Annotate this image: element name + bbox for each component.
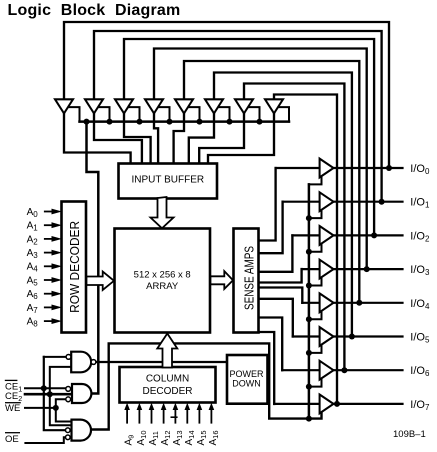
wire T2 output into input buffer — [94, 113, 142, 166]
junction dot at (381.6,201.7) — [379, 199, 385, 205]
arrowhead address input A13 — [173, 403, 179, 410]
wire address input A8 — [45, 320, 54, 322]
wire enable tap to U3 — [309, 274, 322, 285]
wire address input A7 — [45, 306, 54, 308]
arrowhead address input A6 — [52, 291, 63, 297]
wire address input A13 — [174, 409, 176, 423]
arrowhead address input A7 — [52, 305, 63, 311]
input buffer triangle T2 — [85, 99, 103, 113]
wire address input A2 — [45, 238, 54, 240]
wire gate G2 output to write-enable bus — [87, 122, 99, 394]
output buffer U1 (I/O1) — [320, 192, 334, 211]
wire WE input line — [25, 407, 56, 409]
svg-text:WE: WE — [5, 403, 20, 414]
svg-text:512 x 256 x 8: 512 x 256 x 8 — [134, 269, 191, 280]
NAND gate G1 (power down control) — [71, 352, 91, 373]
arrowhead address input A1 — [52, 222, 63, 228]
wire I/O5 line — [293, 335, 403, 337]
junction dot at (359.3,302.8) — [356, 300, 362, 306]
svg-text:COLUMN: COLUMN — [146, 374, 189, 385]
input buffer triangle T6 — [205, 99, 223, 113]
label CE1 (active low) — [5, 379, 18, 381]
wire I/O2 write path to input triangle T3 — [124, 39, 374, 235]
arrowhead address input A16 — [209, 403, 215, 410]
wire enable tap of T6 to write-enable bus — [216, 107, 230, 122]
arrowhead address input A5 — [52, 277, 63, 283]
wire sense amp output 4 to output buffer U4 — [259, 288, 303, 303]
junction dot at (229.5,121.6) — [227, 119, 233, 125]
wire I/O6 write path to input triangle T7 — [244, 84, 344, 371]
svg-text:INPUT BUFFER: INPUT BUFFER — [131, 175, 204, 186]
junction dot at (344.4,370.2) — [341, 367, 347, 373]
label WE (active low) — [5, 402, 21, 404]
wire address input A10 — [138, 409, 140, 423]
wire enable tap of T3 to write-enable bus — [126, 107, 140, 122]
wire address input A4 — [45, 265, 54, 267]
wire enable tap of T2 to write-enable bus — [96, 107, 110, 122]
wire T4 output into input buffer — [154, 113, 158, 166]
svg-text:ROW DECODER: ROW DECODER — [67, 221, 82, 313]
svg-text:POWER: POWER — [229, 369, 264, 379]
hollow arrow array to sense amps — [211, 271, 234, 289]
wire I/O3 line — [302, 268, 403, 270]
svg-text:ARRAY: ARRAY — [146, 281, 179, 292]
arrowhead address input A10 — [137, 403, 143, 410]
wire CE1 branch to gate G1 — [44, 356, 66, 358]
wire address input A6 — [45, 293, 54, 295]
wire I/O7 write path to input triangle T8 — [274, 95, 337, 404]
arrowhead address input A2 — [52, 236, 63, 242]
wire enable tap of T5 to write-enable bus — [186, 107, 200, 122]
wire I/O2 line — [292, 234, 402, 236]
junction dot at (169.5,121.6) — [167, 119, 173, 125]
wire I/O1 write path to input triangle T2 — [94, 31, 382, 202]
wire gate G1 output to power down block — [96, 361, 227, 363]
input buffer triangle T1 — [55, 99, 73, 113]
junction dot at (308.9,352.9) — [306, 350, 312, 356]
wire T8 output into input buffer — [208, 113, 274, 166]
output buffer U5 (I/O5) — [320, 327, 334, 346]
junction dot at (374.1,235.4) — [371, 232, 377, 238]
wire CE2 rail to gates G1 and G3 — [50, 367, 72, 425]
wire sense amp output 3 to output buffer U3 — [259, 269, 302, 282]
junction dot at (308.9,251.8) — [306, 249, 312, 255]
sense amps box — [234, 229, 259, 333]
label OE (active low) — [5, 432, 20, 434]
svg-text:OE: OE — [5, 434, 19, 445]
wire address input A16 — [210, 409, 212, 423]
svg-text:109B–1: 109B–1 — [393, 429, 426, 440]
wire WE branch to gate G3 — [56, 408, 72, 422]
arrowhead address input A8 — [52, 318, 63, 324]
wire I/O6 line — [282, 369, 402, 371]
memory array box — [115, 229, 211, 333]
wire sense amp output 5 to output buffer U5 — [259, 299, 293, 337]
arrowhead address input A9 — [124, 403, 130, 410]
output buffer U4 (I/O4) — [320, 293, 334, 312]
wire address input A3 — [45, 252, 54, 254]
junction dot at (139.5,121.6) — [137, 119, 143, 125]
input buffer triangle T7 — [235, 99, 253, 113]
wire sense amp output 0 to output buffer U0 — [259, 168, 276, 241]
output buffer U7 (I/O7) — [320, 395, 334, 414]
wire T1 output into input buffer — [64, 113, 131, 166]
wire WE branch to gate G2 — [56, 399, 66, 408]
wire sense amp output 6 to output buffer U6 — [259, 318, 283, 371]
svg-text:DECODER: DECODER — [142, 386, 192, 397]
hollow arrow column decoder to array — [157, 334, 177, 368]
junction dot at (308.9,386.59999999999997) — [306, 384, 312, 390]
wire enable tap to U0 — [309, 173, 322, 184]
wire enable tap of T7 to write-enable bus — [246, 107, 260, 122]
wire sense amp output 1 to output buffer U1 — [259, 202, 283, 254]
wire I/O5 write path to input triangle T6 — [214, 73, 352, 337]
arrowhead address input A14 — [185, 403, 191, 410]
output buffer U3 (I/O3) — [320, 260, 334, 279]
arrowhead address input A12 — [161, 403, 167, 410]
wire T6 output into input buffer — [189, 113, 214, 166]
wire address input A0 — [45, 211, 54, 213]
junction dot at (109.5,121.6) — [107, 119, 113, 125]
wire address input A5 — [45, 279, 54, 281]
wire tick mark near A13 — [171, 416, 177, 418]
svg-text:SENSE AMPS: SENSE AMPS — [241, 246, 256, 310]
input buffer triangle T5 — [175, 99, 193, 113]
wire CE1 rail to gate G3 — [44, 357, 66, 430]
junction dot at (199.5,121.6) — [197, 119, 203, 125]
wire enable tap to U5 — [309, 342, 322, 353]
arrowhead address input A4 — [52, 263, 63, 269]
wire enable tap of T1 to write-enable bus — [66, 107, 80, 122]
power down box — [227, 355, 268, 404]
junction dot at (55.8,407.9) — [53, 405, 59, 411]
arrowhead address input A3 — [52, 250, 63, 256]
wire address input A12 — [163, 409, 165, 423]
input buffer triangle T8 — [265, 99, 283, 113]
output buffer U2 (I/O2) — [320, 226, 334, 245]
input buffer triangle T4 — [145, 99, 163, 113]
junction dot at (86.5,121.6) — [84, 119, 90, 125]
junction dot at (366.7,269.1) — [364, 266, 370, 272]
junction dot at (308.9,285.5) — [306, 283, 312, 289]
arrowhead address input A0 — [52, 209, 63, 215]
wire output-enable rail — [308, 184, 311, 418]
NAND gate G2 (write enable) — [72, 384, 91, 403]
wire address input A11 — [151, 409, 153, 423]
wire I/O0 line — [276, 167, 403, 169]
row decoder box — [62, 202, 87, 333]
wire enable tap to U6 — [309, 375, 322, 386]
output buffer U6 (I/O6) — [320, 361, 334, 380]
output buffer U0 (I/O0) — [320, 159, 334, 178]
junction dot at (43.8,388.2) — [41, 385, 47, 391]
hollow arrow input buffer to array — [151, 197, 174, 228]
junction dot at (49.8,394.2) — [47, 391, 53, 397]
wire I/O4 write path to input triangle T5 — [184, 61, 359, 303]
wire sense amp output 7 to output buffer U7 — [259, 332, 275, 404]
svg-text:DOWN: DOWN — [232, 379, 261, 389]
wire address input A15 — [198, 409, 200, 423]
wire enable tap to U4 — [309, 308, 322, 319]
arrowhead address input A11 — [149, 403, 155, 410]
wire T7 output into input buffer — [199, 113, 244, 166]
wire enable tap to U1 — [309, 207, 322, 218]
hollow arrow row decoder to array — [87, 272, 115, 291]
junction dot at (308.9,418.6) — [306, 416, 312, 422]
junction dot at (308.9,218.1) — [306, 215, 312, 221]
wire T3 output into input buffer — [124, 113, 151, 166]
wire OE input line to gate G3 — [25, 437, 65, 443]
NAND gate G3 (output enable) — [72, 420, 92, 441]
arrowhead address input A15 — [197, 403, 203, 410]
wire address input A9 — [126, 409, 128, 423]
wire I/O3 write path to input triangle T4 — [154, 49, 367, 270]
junction dot at (351.9,336.5) — [349, 334, 355, 340]
wire address input A1 — [45, 224, 54, 226]
input buffer box — [119, 164, 218, 199]
wire T5 output into input buffer — [174, 113, 184, 166]
wire address input A14 — [186, 409, 188, 423]
column decoder box — [120, 367, 216, 403]
junction dot at (337,403.9) — [334, 401, 340, 407]
svg-text:Logic Block Diagram: Logic Block Diagram — [8, 2, 181, 19]
wire write-enable bus — [80, 120, 290, 123]
input buffer triangle T3 — [115, 99, 133, 113]
wire enable tap of T4 to write-enable bus — [156, 107, 170, 122]
wire gate G3 output to output-enable rail and U7 tap — [91, 343, 322, 429]
wire I/O0 write path to input triangle T1 — [64, 22, 389, 168]
junction dot at (389,168) — [386, 165, 392, 171]
wire I/O7 line — [274, 403, 402, 405]
wire CE2 input line to gate G2 — [25, 393, 72, 396]
wire sense amp output 2 to output buffer U2 — [259, 235, 293, 271]
wire I/O4 line — [302, 302, 402, 304]
wire enable tap of T8 to write-enable bus — [276, 107, 289, 122]
wire enable tap to U2 — [309, 240, 322, 251]
wire CE1 input line — [25, 387, 66, 389]
wire I/O1 line — [283, 201, 403, 203]
junction dot at (259.5,121.6) — [257, 119, 263, 125]
junction dot at (308.9,319.2) — [306, 316, 312, 322]
